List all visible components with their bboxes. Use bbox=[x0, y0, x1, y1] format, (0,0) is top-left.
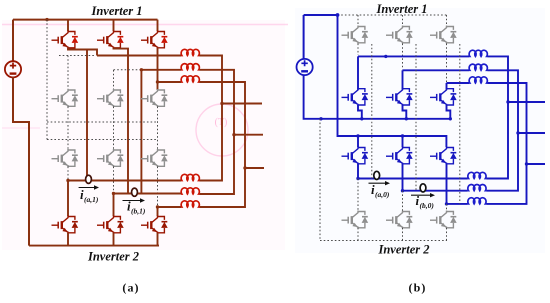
svg-text:Inverter 1: Inverter 1 bbox=[375, 2, 427, 16]
svg-text:Inverter 2: Inverter 2 bbox=[87, 250, 139, 264]
svg-text:(b): (b) bbox=[409, 281, 427, 295]
svg-text:Inverter 1: Inverter 1 bbox=[90, 4, 142, 18]
svg-text:(T): (T) bbox=[215, 117, 228, 128]
svg-text:(a): (a) bbox=[122, 281, 139, 295]
svg-text:Inverter 2: Inverter 2 bbox=[377, 243, 429, 257]
svg-text:(a,0): (a,0) bbox=[375, 190, 390, 199]
svg-text:(a,1): (a,1) bbox=[84, 195, 99, 204]
svg-text:(b,1): (b,1) bbox=[131, 207, 146, 216]
svg-text:(b,0): (b,0) bbox=[420, 201, 435, 210]
